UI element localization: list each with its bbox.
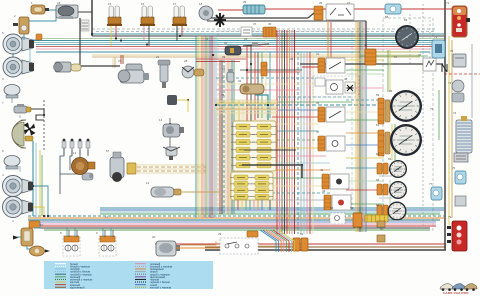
wire xyxy=(346,73,384,75)
svg-text:51: 51 xyxy=(300,232,304,236)
fan blades xyxy=(214,13,226,27)
wire xyxy=(261,52,263,118)
coil 30 xyxy=(225,46,241,55)
tail lamp 79 xyxy=(447,221,467,251)
svg-text:69: 69 xyxy=(404,18,408,22)
wire xyxy=(278,230,294,252)
wire xyxy=(207,36,209,218)
lighter 68 xyxy=(385,4,401,14)
svg-text:желтый с черным: желтый с черным xyxy=(150,285,171,289)
wire xyxy=(241,200,243,210)
wire xyxy=(112,230,114,237)
svg-text:23: 23 xyxy=(118,59,122,63)
wire xyxy=(209,36,211,218)
switch 49 xyxy=(326,80,343,94)
wire xyxy=(196,61,240,63)
svg-text:29: 29 xyxy=(218,232,222,236)
svg-text:32: 32 xyxy=(238,79,242,83)
wire xyxy=(196,58,246,60)
wire xyxy=(365,21,367,64)
svg-text:71: 71 xyxy=(446,1,450,5)
wire xyxy=(110,228,112,237)
connector 40 xyxy=(365,49,376,65)
wire xyxy=(36,51,430,53)
svg-text:31: 31 xyxy=(205,37,209,41)
wire xyxy=(257,200,259,210)
relay 44 xyxy=(315,78,325,86)
wire xyxy=(231,60,233,214)
fuse box upper xyxy=(231,121,276,171)
wire xyxy=(265,8,452,10)
svg-text:13: 13 xyxy=(73,151,77,155)
wire xyxy=(176,25,178,41)
wire xyxy=(11,97,13,103)
wire xyxy=(272,147,322,149)
wire xyxy=(39,150,41,218)
fan pinwheel xyxy=(24,123,36,136)
repeater 1 xyxy=(31,5,49,14)
connector pair xyxy=(377,205,388,216)
wire xyxy=(216,100,277,102)
wire xyxy=(28,217,444,219)
wire xyxy=(19,166,21,172)
wire xyxy=(137,170,206,172)
wire xyxy=(272,199,330,201)
temp gauge 64 xyxy=(389,181,407,199)
wire xyxy=(218,9,243,11)
wire xyxy=(272,116,318,118)
wire xyxy=(387,50,389,92)
horn 17 xyxy=(172,6,187,26)
svg-text:45: 45 xyxy=(316,101,320,105)
svg-text:55: 55 xyxy=(350,206,354,210)
wire xyxy=(269,200,271,210)
wire xyxy=(120,55,122,64)
volt gauge 62 xyxy=(388,202,407,221)
wire xyxy=(215,36,217,218)
wire xyxy=(389,180,391,206)
wire xyxy=(278,101,352,103)
wire xyxy=(394,124,396,160)
wire xyxy=(30,42,444,44)
switch xyxy=(318,58,345,73)
svg-text:54: 54 xyxy=(330,206,334,210)
wire xyxy=(23,40,444,42)
wire xyxy=(303,52,305,234)
wire xyxy=(308,13,314,18)
wire xyxy=(268,230,284,252)
svg-text:47: 47 xyxy=(316,130,320,134)
svg-text:65: 65 xyxy=(389,89,393,93)
wire xyxy=(68,230,70,237)
wire xyxy=(207,17,308,19)
svg-text:18: 18 xyxy=(199,2,203,6)
wire xyxy=(276,30,278,234)
wire xyxy=(216,108,277,110)
wire xyxy=(233,60,235,214)
wire xyxy=(92,54,420,56)
wire xyxy=(33,186,48,216)
wire xyxy=(281,30,283,234)
wire xyxy=(346,180,384,182)
relay xyxy=(377,221,385,227)
wire xyxy=(265,230,281,252)
wire xyxy=(379,107,392,109)
switch xyxy=(324,195,351,210)
horn 16 xyxy=(140,6,155,26)
wire xyxy=(365,22,367,232)
svg-text:16: 16 xyxy=(141,2,145,6)
svg-text:17: 17 xyxy=(173,2,177,6)
wire xyxy=(272,192,330,194)
wire xyxy=(272,177,336,179)
headlight xyxy=(3,197,34,218)
lamp cluster xyxy=(99,236,116,256)
connector 75 xyxy=(454,153,468,162)
wire xyxy=(218,11,243,13)
wire xyxy=(229,60,231,214)
relay 1b xyxy=(21,228,33,246)
wire xyxy=(137,172,206,174)
wire xyxy=(273,230,289,252)
wire xyxy=(379,143,392,145)
svg-text:40: 40 xyxy=(364,43,368,47)
wire xyxy=(240,69,302,71)
wire xyxy=(216,83,316,85)
wire xyxy=(43,100,45,152)
wire xyxy=(92,33,444,35)
dash panel xyxy=(214,99,278,207)
wire xyxy=(197,36,199,218)
wire xyxy=(379,217,392,219)
wire xyxy=(379,197,392,199)
wire xyxy=(216,103,277,105)
wire xyxy=(28,215,444,217)
wire xyxy=(223,60,225,214)
wire xyxy=(444,73,480,75)
wire xyxy=(355,22,357,232)
wire xyxy=(207,20,366,22)
wire xyxy=(260,230,276,252)
svg-text:66: 66 xyxy=(376,178,380,182)
wire xyxy=(12,54,14,58)
wire xyxy=(211,36,213,218)
connector xyxy=(247,231,258,237)
switch xyxy=(318,107,345,122)
svg-text:60: 60 xyxy=(380,227,384,231)
horn 15 xyxy=(107,6,122,26)
wire xyxy=(104,230,106,237)
wiper motor 24 xyxy=(56,5,78,19)
wire xyxy=(244,149,296,151)
connector pair xyxy=(377,184,388,195)
symbol xyxy=(442,64,447,72)
wire xyxy=(219,60,221,214)
wire xyxy=(391,124,393,160)
wire xyxy=(346,203,384,205)
wire xyxy=(379,191,392,193)
connector 51 xyxy=(314,6,323,20)
wire xyxy=(237,200,239,210)
wire xyxy=(309,52,311,234)
wire xyxy=(201,36,203,218)
wire xyxy=(330,22,332,57)
wire xyxy=(306,52,308,234)
svg-text:35: 35 xyxy=(290,57,294,61)
svg-text:47: 47 xyxy=(418,53,422,57)
wire xyxy=(216,104,383,106)
fan motor 18 xyxy=(199,6,213,20)
oil sender 21 xyxy=(158,60,170,88)
svg-text:28: 28 xyxy=(184,59,188,63)
relay 2 xyxy=(13,17,29,34)
wire xyxy=(451,40,453,218)
spark plugs xyxy=(62,139,90,155)
wire xyxy=(448,36,450,225)
wire xyxy=(44,229,430,231)
wire xyxy=(246,71,300,73)
wire xyxy=(269,52,271,118)
wire xyxy=(379,99,392,101)
wire xyxy=(429,20,431,60)
wire xyxy=(272,185,336,187)
connector xyxy=(353,213,362,227)
wire xyxy=(276,230,292,252)
wire xyxy=(216,102,277,104)
wire xyxy=(444,0,446,250)
wire xyxy=(227,60,229,214)
wire xyxy=(312,52,314,234)
wire xyxy=(346,119,384,121)
wire xyxy=(216,77,316,79)
wire xyxy=(291,30,293,234)
wire xyxy=(255,95,268,120)
wire xyxy=(216,106,277,108)
wire xyxy=(36,44,440,46)
fuse box lower xyxy=(230,172,273,200)
svg-text:21: 21 xyxy=(156,55,160,59)
svg-text:33: 33 xyxy=(222,67,226,71)
wire xyxy=(112,57,114,68)
speedometer 63 xyxy=(390,124,422,156)
wire xyxy=(143,25,145,40)
switch xyxy=(322,174,349,189)
wire xyxy=(122,55,124,64)
wire xyxy=(272,123,318,125)
wire xyxy=(346,87,384,89)
distributor 13 xyxy=(72,158,96,175)
wire xyxy=(346,132,384,134)
fuel pump xyxy=(151,187,181,197)
wire xyxy=(294,30,296,234)
wiper motor 20 xyxy=(156,241,180,256)
wire xyxy=(279,30,281,234)
wire xyxy=(360,55,428,57)
sensor 76 xyxy=(455,171,466,184)
wire xyxy=(92,35,444,37)
wire xyxy=(361,22,363,232)
wire xyxy=(195,36,197,218)
wire xyxy=(213,36,215,218)
relay 47 xyxy=(423,58,436,71)
wire xyxy=(249,200,251,210)
svg-text:76: 76 xyxy=(452,166,456,170)
connector 57 xyxy=(263,27,276,37)
svg-text:15: 15 xyxy=(108,2,112,6)
parking lamp xyxy=(4,85,20,99)
wire xyxy=(35,143,37,218)
relay xyxy=(377,235,385,242)
wire xyxy=(451,9,453,36)
svg-text:77: 77 xyxy=(429,182,433,186)
wire xyxy=(28,219,440,221)
wire xyxy=(265,200,267,210)
svg-text:75: 75 xyxy=(430,107,434,111)
svg-text:12: 12 xyxy=(146,181,150,185)
wire xyxy=(216,89,300,91)
wire xyxy=(272,155,326,157)
wire xyxy=(203,36,205,218)
fan switch 48 xyxy=(345,82,355,93)
svg-text:58: 58 xyxy=(385,15,389,19)
svg-text:38: 38 xyxy=(221,93,225,97)
sensor 17 xyxy=(163,147,180,160)
svg-text:11: 11 xyxy=(105,215,108,219)
wire xyxy=(346,189,384,191)
wire xyxy=(300,63,443,65)
svg-text:27: 27 xyxy=(347,1,351,5)
wire xyxy=(242,165,302,178)
wire xyxy=(272,139,322,141)
svg-text:63: 63 xyxy=(388,157,392,161)
wire xyxy=(300,52,302,234)
sensor 28 xyxy=(182,66,204,78)
motor 72 xyxy=(452,80,464,102)
wire xyxy=(346,157,384,159)
antenna 34 xyxy=(243,42,269,47)
wire xyxy=(137,166,206,168)
wire xyxy=(253,200,255,210)
wire xyxy=(100,211,440,213)
resistor 25 xyxy=(243,5,265,14)
svg-text:14: 14 xyxy=(159,118,163,122)
lamp xyxy=(30,246,51,256)
wire xyxy=(41,155,43,216)
svg-text:43: 43 xyxy=(322,189,326,193)
wire xyxy=(33,223,436,225)
sensor 33 xyxy=(227,69,234,82)
svg-text:39: 39 xyxy=(222,55,226,59)
wire xyxy=(33,207,44,216)
wire xyxy=(245,200,247,210)
svg-text:57: 57 xyxy=(106,149,110,153)
tachometer 65 xyxy=(390,90,422,122)
svg-text:36: 36 xyxy=(268,22,272,26)
wire xyxy=(31,109,44,120)
wire xyxy=(360,51,420,53)
wire xyxy=(254,52,256,120)
connector xyxy=(25,136,33,141)
svg-text:26: 26 xyxy=(319,1,323,5)
fuel gauge 66 xyxy=(389,160,407,178)
wire xyxy=(216,109,277,111)
wire xyxy=(389,50,391,92)
wire xyxy=(205,246,446,248)
wire xyxy=(242,100,244,122)
svg-text:20: 20 xyxy=(152,235,156,239)
wire xyxy=(297,52,299,234)
wire xyxy=(23,42,30,67)
connector pair xyxy=(377,163,388,174)
wire xyxy=(91,0,93,36)
svg-text:37: 37 xyxy=(253,22,257,26)
wire xyxy=(137,164,206,166)
wire xyxy=(379,175,392,177)
legend box xyxy=(44,261,213,289)
svg-text:61: 61 xyxy=(376,123,380,127)
wire xyxy=(216,112,277,114)
wire xyxy=(346,69,384,71)
clock 69 xyxy=(395,25,419,49)
relay 37 xyxy=(241,27,252,36)
wire xyxy=(221,60,223,214)
ignition coil 14 xyxy=(163,124,184,137)
washer tank 57 xyxy=(110,152,136,182)
svg-text:34: 34 xyxy=(244,37,248,41)
svg-text:59: 59 xyxy=(376,93,380,97)
wire xyxy=(100,209,444,211)
wire xyxy=(205,36,207,218)
wire xyxy=(257,52,259,118)
wire xyxy=(276,162,330,164)
wire xyxy=(346,144,384,146)
wire xyxy=(284,30,286,234)
wire xyxy=(32,141,34,216)
wire xyxy=(286,30,288,234)
svg-text:74: 74 xyxy=(453,111,457,115)
switch xyxy=(330,213,345,224)
svg-text:48: 48 xyxy=(344,77,348,81)
wire xyxy=(357,22,359,232)
wire xyxy=(471,44,473,118)
panel dashed boundary xyxy=(218,31,352,212)
wire xyxy=(23,39,36,41)
wire xyxy=(250,46,252,132)
wire xyxy=(96,31,436,33)
wire xyxy=(225,60,227,214)
wire xyxy=(148,25,150,46)
wire xyxy=(33,221,436,223)
wire xyxy=(265,36,267,118)
svg-text:25: 25 xyxy=(243,0,247,4)
connector strip xyxy=(365,215,388,222)
svg-text:67: 67 xyxy=(394,55,398,59)
wire xyxy=(289,30,291,234)
octane corrector xyxy=(82,173,93,180)
wire xyxy=(36,38,444,40)
svg-text:CARS-VAZ.PRO: CARS-VAZ.PRO xyxy=(443,291,469,295)
wire xyxy=(346,99,384,101)
wire xyxy=(246,46,248,122)
relay 26 xyxy=(326,4,354,20)
wire xyxy=(422,4,424,232)
wire xyxy=(205,249,446,251)
wire xyxy=(115,25,117,38)
radiator fan shroud xyxy=(12,120,26,148)
wire xyxy=(263,230,279,252)
headlight xyxy=(3,34,34,54)
wire xyxy=(92,56,420,58)
